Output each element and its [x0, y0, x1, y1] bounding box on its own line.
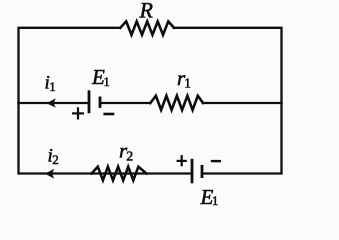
svg-text:r1: r1: [177, 66, 191, 91]
svg-text:E1: E1: [91, 65, 110, 89]
svg-text:i2: i2: [48, 146, 59, 167]
svg-text:r2: r2: [119, 139, 133, 165]
svg-text:R: R: [139, 0, 154, 23]
svg-text:i1: i1: [45, 73, 56, 95]
svg-text:E1: E1: [200, 185, 219, 209]
